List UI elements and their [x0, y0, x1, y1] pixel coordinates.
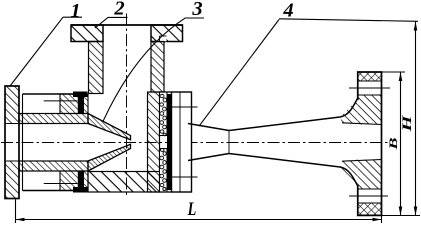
- svg-text:2: 2: [113, 0, 124, 19]
- svg-text:4: 4: [282, 0, 293, 21]
- svg-text:H: H: [400, 114, 414, 132]
- svg-text:1: 1: [70, 0, 80, 22]
- svg-text:B: B: [388, 137, 400, 150]
- svg-text:3: 3: [191, 0, 202, 20]
- svg-text:L: L: [187, 198, 197, 219]
